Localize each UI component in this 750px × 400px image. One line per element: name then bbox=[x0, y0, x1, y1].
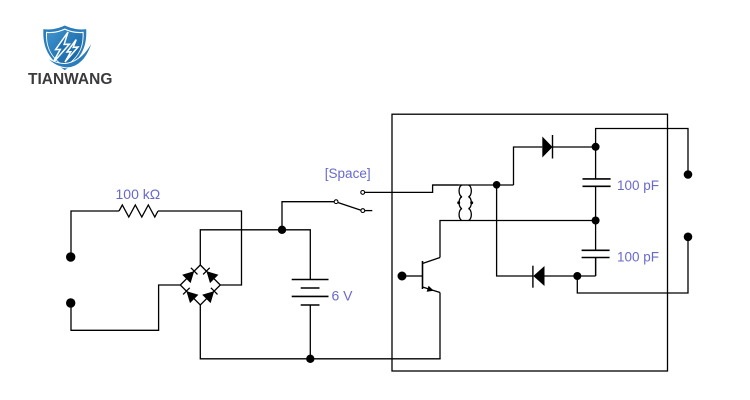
terminal dot left top bbox=[66, 252, 75, 261]
wire switch to transformer primary top bbox=[365, 185, 459, 192]
junction node bottom diode bbox=[573, 272, 581, 280]
wire secondary top down to bottom diode bbox=[497, 185, 533, 276]
svg-text:100 kΩ: 100 kΩ bbox=[116, 186, 161, 202]
terminal dot right bottom bbox=[684, 233, 693, 242]
logo shield outer bbox=[43, 26, 86, 71]
module box bbox=[392, 114, 668, 371]
capacitor C1 bbox=[583, 147, 611, 221]
svg-text:TIANWANG: TIANWANG bbox=[28, 71, 112, 88]
svg-text:100 pF: 100 pF bbox=[617, 249, 659, 264]
bridge diode bottom-left bbox=[186, 291, 198, 303]
junction node battery top bbox=[278, 226, 286, 234]
junction node top capacitor bbox=[592, 143, 600, 151]
wire junction to battery bbox=[282, 230, 310, 279]
diode D1 top bbox=[542, 135, 595, 159]
switch SW1 bbox=[334, 191, 372, 213]
wire resistor left lead bbox=[71, 211, 119, 253]
wire secondary top to top diode riser bbox=[514, 147, 543, 185]
transformer TR1 bbox=[433, 185, 514, 220]
junction node mid bbox=[592, 217, 600, 225]
bridge rectifier diamond bbox=[180, 265, 220, 305]
junction node secondary top bbox=[493, 181, 501, 189]
bridge diode bottom-right bbox=[202, 291, 214, 303]
battery B1 bbox=[292, 280, 329, 306]
svg-text:6 V: 6 V bbox=[332, 288, 354, 304]
capacitor C2 bbox=[582, 221, 610, 277]
bridge diode left-top bbox=[182, 271, 194, 283]
terminal dot left bottom bbox=[66, 298, 75, 307]
logo swoosh bbox=[45, 40, 93, 68]
logo lightning bolt bbox=[52, 32, 78, 64]
wire bottom-left terminal to bridge left bbox=[71, 285, 180, 330]
wire bottom junction to right terminal bbox=[577, 241, 688, 293]
wire cap2 bottom corner bbox=[595, 258, 597, 277]
transistor Q1 bbox=[398, 258, 441, 359]
wire battery bottom bbox=[309, 305, 311, 359]
diode D2 bottom bbox=[533, 266, 596, 288]
resistor R1 bbox=[119, 205, 158, 217]
wire bridge bottom to ground rail bbox=[200, 305, 440, 359]
wire transformer bottom rail bbox=[440, 221, 596, 258]
wire top junction to right terminal bbox=[596, 129, 688, 171]
wire resistor right lead to bridge right bbox=[158, 211, 242, 285]
wire bridge top to junction bbox=[200, 230, 282, 265]
junction node bottom bbox=[306, 355, 314, 363]
terminal dot right top bbox=[684, 170, 693, 179]
svg-text:[Space]: [Space] bbox=[325, 166, 371, 181]
bridge diode top-right bbox=[206, 271, 218, 283]
wire junction up to switch bbox=[282, 202, 334, 230]
svg-text:100 pF: 100 pF bbox=[617, 178, 659, 193]
